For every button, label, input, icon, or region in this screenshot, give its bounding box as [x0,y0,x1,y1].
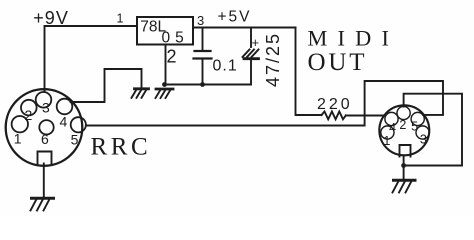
J1 pin 3 cup [36,92,52,108]
J1 pin 6 cup [39,120,53,134]
polarity + label [252,35,260,50]
svg-text:0.1: 0.1 [213,57,238,74]
node +9V label [33,8,69,28]
svg-text:3: 3 [42,100,50,116]
J1 pin 5 cup [71,117,86,132]
value label 78L [140,19,166,36]
J1 pin 2 cup [21,100,37,116]
value label 05 [162,30,189,47]
svg-text:6: 6 [41,131,49,147]
wire RRC pin 4 to ground (step) [71,69,142,102]
svg-text:4: 4 [389,121,396,135]
svg-text:4: 4 [60,113,68,129]
node MIDI OUT label [308,26,400,76]
connector J2 MIDI DIN-5 outer shell [379,105,429,155]
svg-text:47/25: 47/25 [263,32,283,87]
regulator U1 78L05 box [137,17,193,45]
svg-text:+9V: +9V [33,8,69,28]
J2 pin labels [383,118,427,148]
node +5V label [218,8,252,25]
J2 pin 2 cup [397,106,410,119]
svg-text:220: 220 [317,96,353,113]
J2 pin 5 cup [411,112,424,125]
node RRC label [91,134,152,161]
wire regulator pin 2 down to ground rail [165,45,167,85]
resistor R1 220 [322,112,346,120]
svg-text:+5V: +5V [218,8,252,25]
J1 pin labels [14,100,79,148]
svg-text:1: 1 [383,134,390,148]
capacitor C1 0.1 [194,28,212,85]
svg-text:2: 2 [399,118,406,132]
wire resistor to MIDI pin 4 [346,115,385,117]
J1 pin 1 cup [12,116,28,132]
svg-text:+: + [252,35,260,50]
wire J1 shell to ground [43,164,45,198]
J2 pin 1 cup [381,126,394,139]
pin number 1 label [117,12,124,26]
ground (RRC pin 4) [132,89,149,98]
ground (J2 / MIDI pin 2) [393,180,416,192]
wire +9V rail to regulator pin 1 [45,26,137,92]
wire MIDI pin 2 to ground rail [404,94,462,166]
connector J2 notch [400,145,411,157]
wire J2 shell to ground [403,157,405,180]
junction dot MIDI ground [401,163,406,168]
svg-text:1: 1 [117,12,124,26]
junction dot at C1 ground [200,82,205,87]
J2 pin 3 cup [416,126,429,139]
J1 pin 4 cup [57,99,73,115]
value label 220 [317,96,353,113]
svg-text:OUT: OUT [308,49,368,76]
wire +5V drop to resistor [296,28,322,116]
svg-text:3: 3 [197,13,204,28]
pin number 2 label [167,47,177,67]
wire +5V rail from pin 3 [193,27,296,29]
value label 47/25 (rotated) [263,32,283,87]
capacitor C2 47/25 electrolytic [243,28,259,85]
svg-text:MIDI: MIDI [308,26,400,51]
J2 pin 4 cup [385,112,398,125]
svg-text:2: 2 [167,47,177,67]
ground (regulator pin 2) [156,89,174,98]
connector J1 notch [38,152,52,164]
svg-text:RRC: RRC [91,134,152,161]
pin number 3 label [197,13,204,28]
wire ground rail under capacitors [165,84,252,86]
wire RRC pin 5 signal to MIDI pin 5 [87,81,444,126]
svg-text:5: 5 [71,132,79,148]
svg-text:2: 2 [25,107,33,123]
value label 0.1 [213,57,238,74]
ground (J1 shell) [31,198,54,210]
junction dot at regulator ground [162,82,167,87]
connector J1 RRC DIN-6 outer shell [6,89,83,166]
svg-text:1: 1 [14,130,22,146]
svg-text:5: 5 [411,119,418,133]
svg-text:3: 3 [420,133,427,147]
